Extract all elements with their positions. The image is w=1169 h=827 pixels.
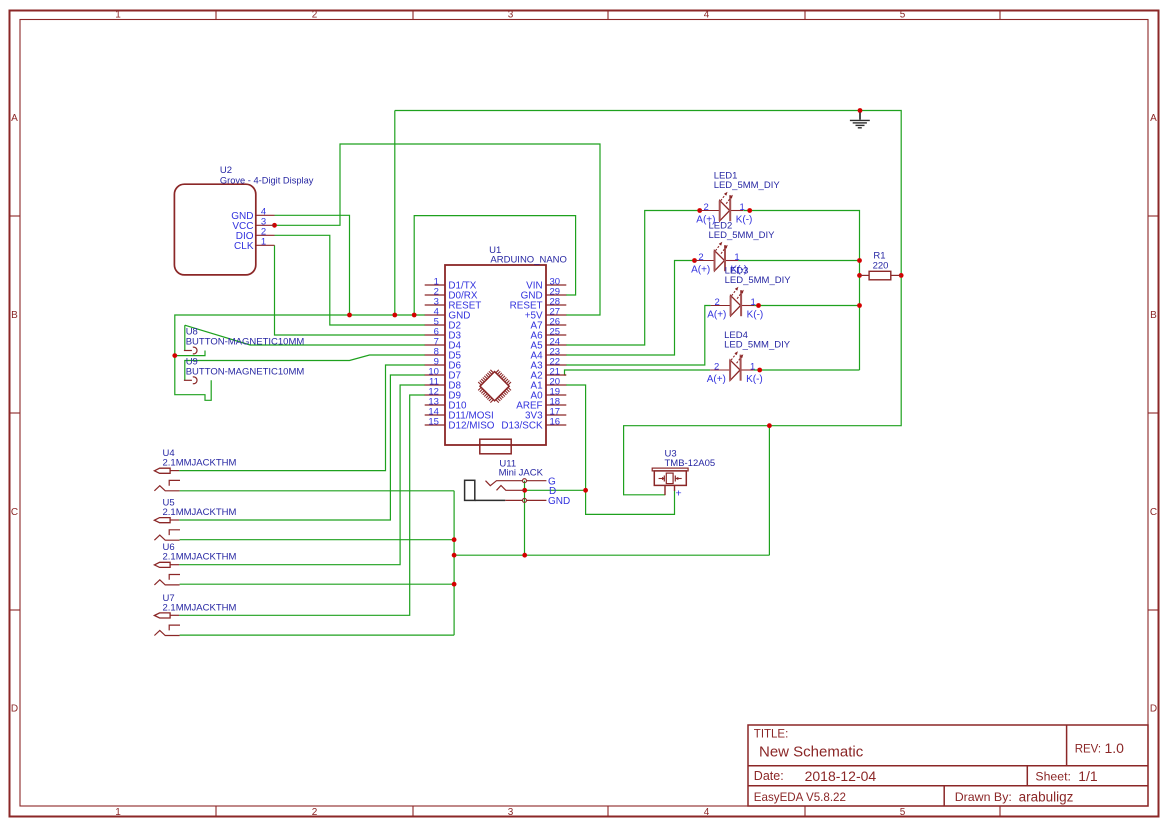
wire U1 pin21 A2 to LED4 anode [565,370,711,375]
LED LED1 emission arrow 2 [726,197,731,204]
wire LED2 cathode to rail [738,260,859,262]
wire U7 sleeve to x454 [180,634,455,636]
LED LED1 anode pin stub [700,210,720,212]
svg-text:2: 2 [312,10,318,21]
wire U8 second contact to GND vertical [175,351,205,356]
U6 fixed contact [169,575,180,580]
wire U2 VCC to U1 pin27 +5V [275,144,601,315]
svg-text:TMB-12A05: TMB-12A05 [665,458,716,469]
junction y425 rail [767,423,772,428]
junction GND rail x394 [392,313,397,318]
U1 pin 10 D7 [425,374,445,376]
svg-text:2.1MMJACKTHM: 2.1MMJACKTHM [163,552,237,563]
U11 GND pin line [505,499,522,501]
U1 pin 21 A2 [546,374,566,376]
LED LED2 anode pin stub [695,260,715,262]
junction U5 sleeve [452,537,457,542]
svg-text:D: D [1150,704,1157,715]
svg-text:5: 5 [900,10,906,21]
U1 MCU diamond icon [478,370,511,403]
svg-text:D12/MISO: D12/MISO [448,420,494,431]
U1 pin 23 A4 [546,354,566,356]
U9 reed contact arc [193,377,197,384]
junction LED1 cathode [747,208,752,213]
svg-text:2.1MMJACKTHM: 2.1MMJACKTHM [163,507,237,518]
svg-text:REV:: REV: [1075,744,1101,756]
U3 right pin [674,485,676,491]
svg-text:LED_5MM_DIY: LED_5MM_DIY [709,230,776,241]
wire bottom ground rail y555 [454,554,769,556]
LED LED2 cathode bar [724,245,726,271]
svg-text:New Schematic: New Schematic [759,744,864,761]
svg-text:220: 220 [873,260,889,271]
U7 fixed contact [169,625,180,630]
junction R1 right [899,273,904,278]
wire U4 sleeve to x454 [180,490,455,492]
wire LED4 cathode to rail [754,369,860,371]
U1 pin 27 +5V [546,314,566,316]
LED LED2 emission arrow 2 [721,247,726,254]
svg-text:1.0: 1.0 [1105,740,1125,756]
U1 pin 24 A5 [546,344,566,346]
svg-text:16: 16 [550,416,561,427]
U2 pin 3 VCC [256,224,275,226]
svg-text:1/1: 1/1 [1078,768,1098,784]
svg-text:Drawn By:: Drawn By: [955,790,1012,804]
U11 G pin line [527,480,547,482]
junction LED1 anode [697,208,702,213]
junction GND rail x349 [347,313,352,318]
junction U11 D pin [522,488,527,493]
ground [850,113,870,128]
svg-text:EasyEDA V5.8.22: EasyEDA V5.8.22 [754,791,846,804]
U4 plug tip symbol [154,468,170,473]
title block Sheet divider [1026,766,1028,786]
U5 plug tip symbol [154,518,170,523]
wire U8 first contact to U1 pin7 D4 [184,325,186,350]
wire U6 sleeve to x454 [180,583,455,585]
wire U11 D pin to A1 vertical [525,489,586,491]
U1 pin 2 D0/RX [425,294,445,296]
svg-text:Mini JACK: Mini JACK [499,468,544,479]
title block DrawnBy divider [943,786,945,806]
U1 pin 4 GND [425,314,445,316]
U11 jack body black rect [465,480,475,500]
wire U5 tip to U1 pin10 D7 [179,375,425,520]
U1 pin 20 A1 [546,384,566,386]
U2 pin 1 CLK [256,244,275,246]
wire U4 tip to U1 pin9 D6 [179,365,425,471]
svg-text:1: 1 [115,10,121,21]
LED LED3 anode pin stub [711,305,731,307]
junction LED2 row on rail [857,258,862,263]
U5 fixed contact [169,530,180,535]
svg-text:15: 15 [428,416,439,427]
wire vertical x394 top bus to GND rail [394,111,396,316]
svg-text:+: + [676,488,682,500]
svg-text:A(+): A(+) [707,310,726,321]
R1 left lead [860,274,870,276]
U1 pin 30 VIN [546,284,566,286]
wire U1 pin22 A3 to LED3 anode [566,306,711,366]
U1 pin 6 D3 [425,334,445,336]
junction U6 sleeve [452,582,457,587]
svg-text:LED_5MM_DIY: LED_5MM_DIY [714,180,781,191]
U3 buzzer top plate [652,468,688,471]
title block REV divider [1066,725,1068,766]
wire U9 first contact to U1 pin8 D5 [185,355,425,380]
svg-text:1: 1 [750,297,755,308]
svg-text:ARDUINO_NANO: ARDUINO_NANO [490,254,567,265]
svg-text:D: D [11,704,18,715]
LED LED3 cathode bar [740,290,742,316]
U1 pin 5 D2 [425,324,445,326]
svg-text:1: 1 [740,202,745,213]
junction LED3 cathode [756,303,761,308]
svg-text:2: 2 [704,202,709,213]
svg-text:2: 2 [698,252,703,263]
svg-text:B: B [11,310,18,321]
LED LED1 cathode pin stub [731,210,744,212]
U3 piezo arrows [659,478,663,480]
U11 GND pin circle [523,498,527,502]
wire U1 pin24 A5 to LED1 anode [566,211,700,346]
frame row ticks right [1148,215,1159,217]
svg-text:2018-12-04: 2018-12-04 [805,768,877,784]
svg-text:K(-): K(-) [747,310,764,321]
U3 piezo element [666,473,673,484]
svg-text:LED_5MM_DIY: LED_5MM_DIY [724,340,791,351]
wire U2 GND pin to GND rail [275,215,350,315]
svg-text:3: 3 [508,807,514,818]
svg-text:C: C [1150,507,1157,518]
wire U2 DIO to U1 pin5 D2 [275,235,426,325]
title block row divider 2 [748,785,1148,787]
LED LED4 cathode pin stub [741,369,754,371]
svg-text:A: A [1150,113,1157,124]
U4 switch lever and sleeve pin [154,486,179,491]
LED LED2 cathode pin stub [725,260,738,262]
U9 reed contact pin [184,379,192,381]
junction R1 left on rail [857,273,862,278]
svg-text:CLK: CLK [234,241,254,252]
U1 pin 8 D5 [425,354,445,356]
frame column ticks top [215,11,217,20]
U1 pin 26 A7 [546,324,566,326]
U1 pin 25 A6 [546,334,566,336]
LED LED4 emission arrow 1 [731,353,736,360]
U1 pin 18 AREF [546,404,566,406]
junction U8 contact on GND drop [172,353,177,358]
wire top ground bus y110 and right vertical to U3 [395,111,901,495]
svg-text:2: 2 [312,807,318,818]
LED LED1 anode bar [719,201,721,221]
junction LED4 cathode [757,368,762,373]
U2 pin 4 GND [256,214,275,216]
U11 tip contact zigzag G [486,481,523,486]
svg-text:D13/SCK: D13/SCK [501,420,543,431]
svg-text:1: 1 [115,807,121,818]
U1 pin 28 RESET [546,304,566,306]
wire U6 tip to U1 pin11 D8 [179,385,425,565]
wire U1 pin29 GND to GND rail [414,216,575,315]
LED LED4 anode bar [729,360,731,380]
U11 GND pin line right [527,499,547,501]
U1 pin 7 D4 [425,344,445,346]
wire LED3 cathode to rail [754,305,859,307]
svg-text:U2: U2 [220,165,232,176]
LED LED3 anode bar [730,296,732,316]
svg-text:1: 1 [261,237,266,248]
U6 tip pin [170,564,179,566]
U1 pin 3 RESET [425,304,445,306]
LED LED4 emission arrow 2 [737,356,742,363]
junction jack common at ground rail [522,553,527,558]
junction U2 VCC pin [272,223,277,228]
svg-text:4: 4 [704,10,710,21]
svg-text:Grove - 4-Digit Display: Grove - 4-Digit Display [220,175,314,185]
svg-text:LED_5MM_DIY: LED_5MM_DIY [725,275,792,286]
svg-text:GND: GND [548,496,570,507]
svg-text:1: 1 [750,361,755,372]
U1 pin 15 D12/MISO [425,424,445,426]
wire U1 pin23 A4 to LED2 anode [566,261,695,356]
svg-text:A: A [11,113,18,124]
U11 G pin circle [523,479,527,483]
LED LED2 triangle [715,251,725,271]
svg-text:2: 2 [714,361,719,372]
U6 switch lever and sleeve pin [154,580,179,585]
U4 fixed contact [169,480,180,485]
U11 sleeve black line [475,499,506,501]
junction at ground symbol [858,108,863,113]
title block box [748,725,1148,806]
LED LED4 cathode bar [740,355,742,381]
wire U1 pin20 A1 down to U3 plus pin [566,385,675,514]
LED LED1 emission arrow 1 [721,194,726,201]
svg-text:5: 5 [900,807,906,818]
U3 buzzer body [654,471,686,486]
LED LED4 triangle [730,360,740,380]
U7 plug tip symbol [154,613,170,618]
wire jack sleeve vertical x454 [453,491,455,635]
U5 switch lever and sleeve pin [154,535,179,540]
U6 plug tip symbol [154,562,170,567]
U7 tip pin [170,614,179,616]
svg-text:B: B [1150,310,1157,321]
U11 ring contact zigzag D [497,486,525,491]
U1 Arduino Nano body [445,265,546,445]
wire U11 jack common vertical x524 [524,481,526,556]
U1 pin 29 GND [546,294,566,296]
junction LED3 row on rail [857,303,862,308]
LED LED4 anode pin stub [710,369,730,371]
svg-text:4: 4 [704,807,710,818]
R1 body [869,271,891,280]
frame column ticks bottom [215,806,217,817]
U1 pin 16 D13/SCK [546,424,566,426]
svg-text:1: 1 [734,252,739,263]
U1 pin 9 D6 [425,364,445,366]
LED LED3 emission arrow 2 [737,292,742,299]
U8 reed contact arc [193,347,197,354]
svg-text:C: C [11,507,18,518]
svg-text:3: 3 [508,10,514,21]
U2 pin 2 DIO [256,234,275,236]
junction LED2 anode [692,258,697,263]
R1 right lead [891,274,901,276]
svg-text:2.1MMJACKTHM: 2.1MMJACKTHM [163,458,237,469]
svg-text:2.1MMJACKTHM: 2.1MMJACKTHM [163,602,237,613]
svg-text:Sheet:: Sheet: [1035,769,1071,783]
U1 pin 1 D1/TX [425,284,445,286]
LED LED3 cathode pin stub [741,305,754,307]
U2 Grove 4-digit display body [174,184,255,275]
LED LED3 triangle [731,296,741,316]
title block row divider 1 [748,765,1148,767]
U1 pin 19 A0 [546,394,566,396]
frame row ticks left [10,215,21,217]
LED LED2 emission arrow 1 [716,244,721,251]
U3 piezo side bars [663,476,665,482]
LED LED1 triangle [720,201,730,221]
wire vertical x769 to bottom ground rail [768,426,770,556]
U1 pin 12 D9 [425,394,445,396]
svg-text:arabuligz: arabuligz [1019,790,1074,805]
junction sleeve rail at ground rail [452,553,457,558]
U1 pin 13 D10 [425,404,445,406]
U3 left pin [664,485,666,495]
svg-text:BUTTON-MAGNETIC10MM: BUTTON-MAGNETIC10MM [186,337,305,348]
U5 tip pin [170,519,179,521]
svg-text:A(+): A(+) [707,374,726,385]
svg-text:K(-): K(-) [746,374,763,385]
svg-text:2: 2 [714,297,719,308]
svg-text:K(-): K(-) [736,215,753,226]
U4 tip pin [170,470,179,472]
U7 switch lever and sleeve pin [154,630,179,635]
U1 USB connector rect [480,439,511,454]
LED LED2 anode bar [714,251,716,271]
wire U2 CLK to U1 pin6 D3 [275,245,426,335]
U1 pin 17 3V3 [546,414,566,416]
wire GND rail from U1 pin4 to left and buttons [175,315,425,400]
wire U7 tip to U1 pin12 D9 [179,395,425,615]
wire LED1 cathode to LED rail x859 [744,211,860,371]
junction GND rail x414 [412,313,417,318]
LED LED1 cathode bar [729,195,731,221]
svg-text:A(+): A(+) [691,265,710,276]
junction A1 drop at D wire [583,488,588,493]
svg-text:BUTTON-MAGNETIC10MM: BUTTON-MAGNETIC10MM [186,367,305,378]
U1 pin 11 D8 [425,384,445,386]
wire U5 sleeve to x454 [180,539,455,541]
U1 pin 14 D11/MOSI [425,414,445,416]
svg-text:Date:: Date: [754,769,784,783]
U8 reed contact pin [184,350,192,352]
U1 pin 22 A3 [546,364,566,366]
LED LED3 emission arrow 1 [732,289,737,296]
svg-text:TITLE:: TITLE: [754,729,789,741]
